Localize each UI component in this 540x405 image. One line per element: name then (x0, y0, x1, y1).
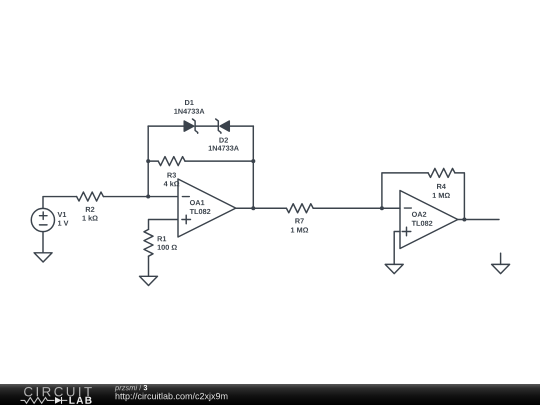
label R7 1 MOhm (291, 218, 308, 232)
ground at V1 (34, 253, 52, 262)
label R1 100 Ohm (158, 236, 177, 250)
ground at R1 (140, 276, 158, 285)
wire OA2 non-inverting input to ground (394, 232, 400, 265)
resistor R2 (77, 192, 104, 201)
label OA1 TL082 (190, 200, 211, 214)
op-amp OA2 (400, 191, 458, 249)
label V1 1 V (58, 212, 69, 226)
op-amp OA1 (178, 179, 236, 237)
junction: OA2 output / feedback (462, 218, 466, 222)
wire right feedback column (252, 126, 254, 208)
logo CIRCUIT (24, 387, 92, 397)
resistor R4 (428, 168, 455, 177)
wire D1 cathode to D2 cathode (195, 125, 218, 127)
wire R3 right lead (185, 160, 253, 162)
wire R1 to ground (148, 256, 150, 276)
meta username / circuit number (115, 385, 147, 392)
ground at OA2 + input (385, 264, 403, 273)
wire V1 bottom to ground (42, 232, 44, 253)
wire R3 left lead (148, 160, 158, 162)
junction: right column / R3 (251, 159, 255, 163)
resistor R1 (144, 229, 153, 256)
logo resistor-diode art (21, 397, 68, 404)
zener diode D1 (184, 119, 198, 133)
wire D2 anode to right column (229, 125, 253, 127)
wire to D1 anode (148, 125, 184, 127)
wire OA2 output (458, 219, 499, 221)
label OA2 TL082 (412, 212, 433, 226)
label R2 1 kOhm (83, 207, 98, 221)
junction: OA1 output / feedback column (251, 206, 255, 210)
label R3 4 kOhm (164, 173, 180, 187)
voltage source V1 (31, 208, 54, 231)
wire R2 to OA1 inverting input (103, 196, 177, 198)
resistor R3 (158, 157, 185, 166)
wire R4 down to OA2 output (455, 173, 465, 220)
zener diode D2 (216, 119, 230, 133)
wire V1 top to R2 (43, 197, 77, 209)
wire R7 to OA2 inverting input (313, 207, 400, 209)
meta url (116, 393, 228, 401)
ground floating right (492, 264, 510, 273)
junction: OA2 input / feedback tap (380, 206, 384, 210)
resistor R7 (286, 204, 313, 213)
label D1 1N4733A (174, 100, 204, 114)
wire OA1 output to R7 (236, 207, 287, 209)
footer bar (0, 384, 540, 405)
junction: input node (146, 195, 150, 199)
label R4 1 MOhm (433, 184, 450, 198)
label D2 1N4733A (209, 138, 239, 151)
logo LAB (69, 397, 91, 404)
wire floating ground stem (500, 253, 502, 264)
wire input node up to diode branch (147, 126, 149, 196)
junction: input column / R3 (146, 159, 150, 163)
wire feedback tap up to R4 (382, 173, 428, 208)
wire OA1 non-inverting input to R1 (149, 220, 178, 230)
